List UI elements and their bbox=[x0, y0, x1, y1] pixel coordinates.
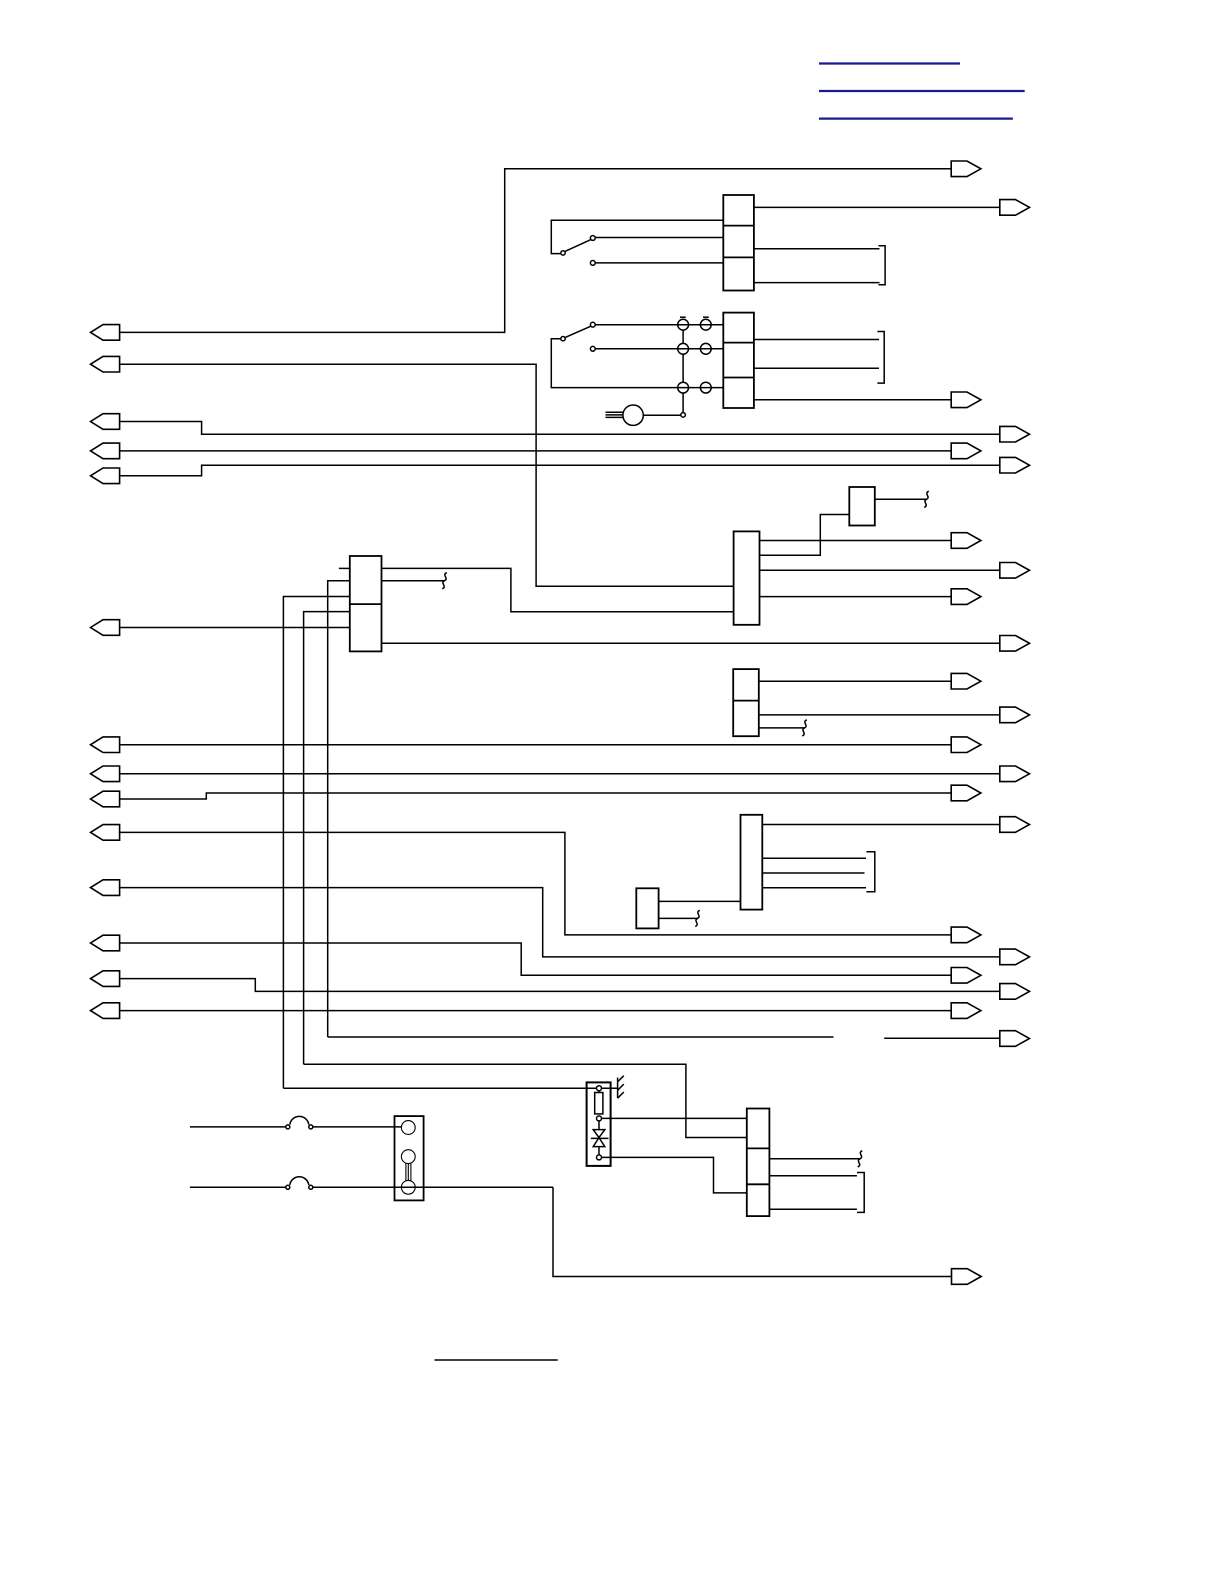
connector P3 bbox=[350, 556, 382, 651]
wire: flag L4 to flag R5 bbox=[120, 450, 952, 452]
wire: flag L8 to flag R14 bbox=[120, 773, 1000, 775]
off-page connector flag R3 bbox=[951, 392, 981, 408]
off-page connector flag R21 bbox=[951, 1003, 981, 1019]
wire: J3 pin1 to flag R11 bbox=[759, 680, 951, 682]
switch S1 contact b bbox=[590, 261, 595, 266]
motor B1 bbox=[623, 405, 643, 425]
wire: CB2 through TB1 to corner bbox=[313, 1186, 553, 1188]
A3 terminal bottom bbox=[597, 1155, 602, 1160]
wire: A3 mid terminal to J4 pin1 bbox=[602, 1117, 747, 1119]
wire: J3 pin3 continuation lead bbox=[759, 727, 805, 729]
wire: J1 pin2 to component box A1 bbox=[760, 515, 850, 556]
off-page connector flag R23 bbox=[952, 1269, 982, 1285]
off-page connector flag R4 bbox=[1000, 426, 1030, 442]
off-page connector flag L7 bbox=[91, 737, 120, 753]
terminal board TB1 bbox=[395, 1116, 424, 1200]
wire: P3 pin6 to flag R10 bbox=[382, 642, 1000, 644]
switch S2 contact a bbox=[590, 322, 595, 327]
off-page connector flag R2 bbox=[1000, 200, 1030, 216]
wire: S1 contact b to P1 pin3 bbox=[595, 262, 723, 264]
shield bracket for J2 leads bbox=[866, 852, 874, 892]
wire: P3 pin4 down-feeder bbox=[304, 612, 350, 1065]
wire: P1 pin2 shielded lead bbox=[754, 248, 880, 250]
wire: flag L1 to flag R1 bbox=[120, 169, 952, 333]
fuse-diode module A3 bbox=[587, 1082, 611, 1166]
wire: J1 pin3 to flag R8 bbox=[760, 569, 1000, 571]
shield bracket for P1 leads bbox=[879, 246, 886, 285]
connector J2 bbox=[741, 815, 763, 910]
motor B1 brush leads bbox=[606, 412, 624, 417]
off-page connector flag L10 bbox=[91, 825, 120, 841]
off-page connector flag R9 bbox=[951, 589, 981, 605]
A3 terminal top bbox=[597, 1086, 602, 1091]
wire: J2 pin4 shielded lead bbox=[762, 887, 866, 889]
wire: flag L13 to flag R20 bbox=[120, 979, 1000, 992]
off-page connector flag L6 bbox=[91, 620, 120, 636]
wire: P2 pin3 to flag R3 bbox=[754, 399, 951, 401]
wire: motor B1 to splice bus bbox=[643, 414, 681, 416]
wire: CB1 to terminal board TB1 bbox=[313, 1126, 402, 1128]
wire: J2 pin2 shielded lead bbox=[762, 857, 866, 859]
wire: J4 pin2 continuation lead bbox=[769, 1158, 860, 1160]
TB1 terminal 1 bbox=[401, 1121, 415, 1135]
wire: feeder to fuse module and chassis ground bbox=[283, 1087, 617, 1089]
wire: A2 to J2 pin5 bbox=[659, 900, 741, 902]
wire: S2 contact a to splice row 1 bbox=[595, 324, 723, 326]
switch S1 blade bbox=[565, 240, 590, 252]
switch S1 common contact bbox=[561, 251, 565, 255]
off-page connector flag L4 bbox=[91, 443, 120, 459]
splice pair row 3 bbox=[678, 382, 712, 393]
wire: P2 pin1 shielded lead bbox=[754, 339, 879, 341]
wire: J2 pin3 shielded lead bbox=[762, 872, 864, 874]
off-page connector flag L11 bbox=[91, 880, 120, 896]
wire: stub at P3 pin1 bbox=[339, 567, 350, 569]
break symbol at A1 lead bbox=[924, 491, 929, 507]
wire: flag L12 to flag R19 bbox=[120, 943, 952, 975]
connector J4 bbox=[747, 1109, 770, 1217]
connector P1 bbox=[723, 195, 754, 291]
wire: J2 pin1 to flag R16 bbox=[762, 824, 1000, 826]
component box A1 bbox=[849, 487, 875, 526]
off-page connector flag L9 bbox=[91, 791, 120, 807]
wire: J4 shielded lead b bbox=[769, 1208, 857, 1210]
wire: P1 pin3 shielded lead bbox=[754, 282, 880, 284]
off-page connector flag R11 bbox=[951, 673, 981, 689]
off-page connector flag L8 bbox=[91, 766, 120, 782]
component box A2 bbox=[636, 888, 658, 928]
circuit breaker CB2 bbox=[286, 1177, 313, 1190]
hyperlink rule 3 bbox=[819, 117, 1013, 119]
wire: J1 pin1 to flag R7 bbox=[760, 540, 952, 542]
off-page connector flag R1 bbox=[951, 161, 981, 177]
splice pair row 2 bbox=[678, 343, 712, 354]
off-page connector flag R12 bbox=[1000, 707, 1030, 723]
switch S2 common contact bbox=[561, 337, 565, 341]
wire: P3 pin3 down-feeder bbox=[283, 597, 349, 1089]
off-page connector flag R20 bbox=[1000, 984, 1030, 1000]
wire: circuit breaker CB2 feed bbox=[190, 1186, 286, 1188]
off-page connector flag R5 bbox=[951, 443, 981, 459]
wire: A3 bottom terminal to J4 pin3 bbox=[602, 1157, 747, 1193]
wire: splice bus verticals bbox=[682, 330, 684, 413]
break symbol at J4 lead bbox=[858, 1151, 863, 1167]
off-page connector flag L14 bbox=[91, 1003, 120, 1019]
wire: P3 pin2 feeder to flag R22 left segment bbox=[328, 1036, 834, 1038]
wire: S1 contact a to P1 pin2 bbox=[595, 237, 723, 239]
wire: flag L7 to flag R13 bbox=[120, 744, 952, 746]
TB1 terminal 3 bbox=[401, 1180, 415, 1194]
off-page connector flag R14 bbox=[1000, 766, 1030, 782]
off-page connector flag L2 bbox=[91, 356, 120, 372]
A3 terminal mid bbox=[597, 1116, 602, 1121]
wire: feeder to J4 via riser bbox=[304, 1064, 747, 1137]
switch S1 contact a bbox=[590, 236, 595, 241]
wire: J3 pin2 to flag R12 bbox=[759, 714, 1000, 716]
off-page connector flag L13 bbox=[91, 971, 120, 987]
switch S2 contact b bbox=[590, 346, 595, 351]
off-page connector flag L3 bbox=[91, 414, 120, 430]
connector J1 bbox=[734, 531, 760, 624]
node: splice bus junction bbox=[681, 413, 686, 418]
fuse F1 bbox=[595, 1091, 603, 1114]
wire: TB1 to flag R23 bbox=[553, 1187, 952, 1276]
wire: A1 continuation lead bbox=[875, 498, 927, 500]
off-page connector flag R19 bbox=[951, 968, 981, 984]
wire: P3 pin2 feeder to flag R22 right segment bbox=[884, 1037, 1000, 1039]
circuit breaker CB1 bbox=[286, 1116, 313, 1129]
wire: flag L6 to P3 pin5 bbox=[120, 627, 350, 629]
off-page connector flag L12 bbox=[91, 935, 120, 951]
chassis ground GS1 bbox=[618, 1076, 624, 1099]
wire: flag L9 to flag R15 bbox=[120, 793, 952, 799]
diode CR1 bbox=[591, 1121, 609, 1155]
wire: P3 pin2 continuation lead bbox=[382, 580, 445, 582]
off-page connector flag R10 bbox=[1000, 636, 1030, 652]
wire: flag L10 to flag R17 bbox=[120, 832, 952, 935]
break symbol at A2 lead bbox=[695, 910, 700, 926]
off-page connector flag R17 bbox=[951, 927, 981, 943]
off-page connector flag R6 bbox=[1000, 457, 1030, 473]
wire: flag L2 to connector J1 bbox=[120, 364, 734, 586]
hyperlink rule 2 bbox=[819, 90, 1025, 92]
wire: P3 pin1 to connector J1 bbox=[382, 568, 734, 611]
off-page connector flag R15 bbox=[951, 785, 981, 801]
off-page connector flag L1 bbox=[91, 325, 120, 341]
off-page connector flag R13 bbox=[951, 737, 981, 753]
off-page connector flag R16 bbox=[1000, 817, 1030, 833]
off-page connector flag R18 bbox=[1000, 949, 1030, 965]
off-page connector flag R7 bbox=[951, 533, 981, 549]
wire: S2 common return bbox=[551, 339, 723, 388]
wire: P1 pin1 to flag R2 bbox=[754, 206, 1000, 208]
connector P2 bbox=[723, 313, 754, 408]
off-page connector flag L5 bbox=[91, 468, 120, 484]
wire: flag L5 to flag R6 bbox=[120, 465, 1000, 476]
wire: J1 pin4 to flag R9 bbox=[760, 596, 952, 598]
wire: P2 pin2 shielded lead bbox=[754, 367, 879, 369]
connector J3 bbox=[733, 669, 759, 736]
hyperlink rule 1 bbox=[819, 62, 960, 64]
break symbol at P3 pin2 lead bbox=[442, 573, 447, 589]
break symbol at J3 lead bbox=[802, 720, 807, 736]
shield bracket for P2 leads bbox=[877, 332, 884, 384]
wire: P1 pin1 feed to switch S1 bbox=[551, 220, 723, 253]
wire: A2 continuation lead bbox=[659, 917, 698, 919]
off-page connector flag R8 bbox=[1000, 563, 1030, 579]
wire: S2 contact b to splice row 2 bbox=[595, 348, 723, 350]
shield bracket for J4 leads bbox=[857, 1173, 864, 1213]
switch S2 blade bbox=[565, 326, 590, 337]
splice pair row 1 bbox=[678, 317, 712, 330]
off-page connector flag R22 bbox=[1000, 1031, 1030, 1047]
TB1 terminal 2 bbox=[401, 1150, 415, 1164]
wire: flag L11 to flag R18 bbox=[120, 888, 1000, 957]
wire: J4 shielded lead a bbox=[769, 1175, 857, 1177]
wire: circuit breaker CB1 feed bbox=[190, 1126, 286, 1128]
figure label underline bbox=[435, 1359, 558, 1361]
wire: flag L3 to flag R4 bbox=[120, 422, 1000, 435]
TB1 jumper bar bbox=[406, 1163, 411, 1180]
wire: flag L14 to flag R21 bbox=[120, 1010, 952, 1012]
wire: P3 pin2 down-feeder bbox=[328, 581, 350, 1037]
